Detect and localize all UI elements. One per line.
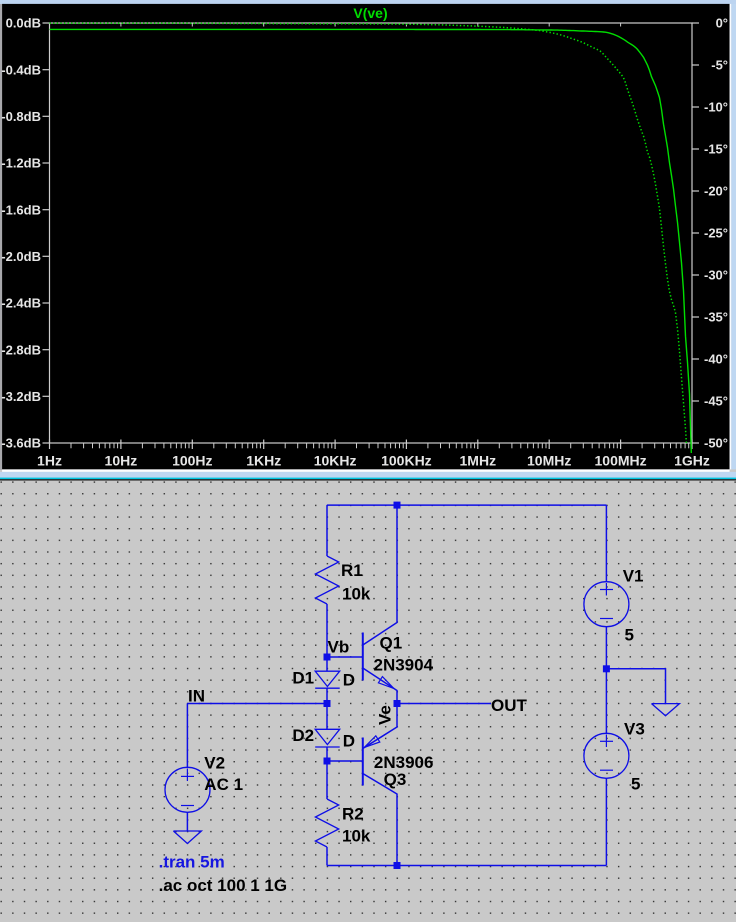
ground (V2) [173, 831, 201, 844]
wire bottom rail [327, 865, 606, 867]
svg-text:1MHz: 1MHz [460, 453, 497, 469]
svg-text:5: 5 [631, 774, 640, 793]
y-axis left dB labels [1, 16, 49, 451]
svg-text:.tran 5m: .tran 5m [159, 853, 225, 872]
svg-text:1KHz: 1KHz [246, 453, 281, 469]
svg-text:Q1: Q1 [380, 634, 403, 653]
resistor R1 [315, 556, 338, 604]
wire R1 top lead [326, 505, 328, 556]
svg-text:10Hz: 10Hz [105, 453, 138, 469]
wire mid node to ground [606, 669, 665, 704]
svg-text:5: 5 [625, 626, 634, 645]
svg-text:D: D [343, 732, 355, 751]
svg-text:10k: 10k [342, 584, 371, 603]
wire V1 to mid node [605, 627, 607, 669]
svg-text:1GHz: 1GHz [674, 453, 710, 469]
svg-text:V2: V2 [204, 754, 225, 773]
plot title V(ve) [353, 5, 387, 21]
node bottom rail junction [394, 862, 401, 869]
directive .tran 5m [159, 853, 225, 872]
svg-text:R1: R1 [341, 561, 363, 580]
svg-text:100Hz: 100Hz [172, 453, 212, 469]
x-axis frequency labels [37, 453, 710, 469]
y-axis right phase labels [692, 16, 728, 451]
svg-text:-45°: -45° [704, 394, 728, 409]
voltage source V3 [584, 733, 629, 778]
plot frame [50, 23, 693, 449]
node A top junction [394, 502, 401, 509]
node Vb junction [324, 654, 331, 661]
svg-text:Vb: Vb [328, 637, 350, 656]
svg-text:D2: D2 [292, 726, 314, 745]
svg-text:-0.4dB: -0.4dB [1, 62, 41, 77]
svg-text:-15°: -15° [704, 142, 728, 157]
wire V+ rail to V1 [605, 505, 607, 582]
svg-text:10k: 10k [342, 827, 371, 846]
trace V(ve) phase (dotted) [50, 23, 687, 443]
svg-text:-35°: -35° [704, 310, 728, 325]
node V1-V3 mid junction [603, 665, 610, 672]
svg-text:R2: R2 [342, 805, 364, 824]
transistor Q1 2N3904 [362, 633, 364, 681]
svg-text:-2.0dB: -2.0dB [1, 249, 41, 264]
wire V2 to ground [186, 812, 188, 831]
ground (right) [652, 704, 680, 716]
svg-text:Q3: Q3 [384, 770, 407, 789]
diode D2 [315, 729, 340, 747]
svg-text:-10°: -10° [704, 100, 728, 115]
wire top rail [327, 504, 606, 506]
svg-text:-3.2dB: -3.2dB [1, 389, 41, 404]
svg-text:-5°: -5° [711, 58, 728, 73]
svg-text:D1: D1 [292, 669, 314, 688]
transistor Q3 2N3906 [362, 738, 364, 786]
svg-text:.ac oct 100 1 1G: .ac oct 100 1 1G [159, 876, 288, 895]
svg-text:-20°: -20° [704, 184, 728, 199]
wire lower node to Q3 base [327, 760, 363, 762]
svg-text:-3.6dB: -3.6dB [1, 436, 41, 451]
diode D1 [315, 671, 340, 688]
svg-text:V1: V1 [623, 567, 644, 586]
svg-text:-30°: -30° [704, 268, 728, 283]
svg-text:100MHz: 100MHz [595, 453, 647, 469]
wire R2 top lead [326, 761, 328, 799]
svg-text:-2.8dB: -2.8dB [1, 342, 41, 357]
svg-text:10MHz: 10MHz [527, 453, 571, 469]
svg-text:10KHz: 10KHz [314, 453, 357, 469]
svg-text:-1.2dB: -1.2dB [1, 156, 41, 171]
svg-text:-40°: -40° [704, 352, 728, 367]
wire D1 top lead [326, 657, 328, 671]
wire V3 to bottom rail [605, 778, 607, 865]
svg-text:OUT: OUT [491, 696, 528, 715]
wire D2 to lower node [326, 747, 328, 761]
node Ve/OUT junction [394, 700, 401, 707]
voltage source V1 [584, 582, 629, 627]
wire D1 to IN node [326, 688, 328, 703]
wire R2 bottom lead [326, 847, 328, 866]
svg-text:D: D [343, 671, 355, 690]
resistor R2 [315, 799, 338, 847]
svg-text:V(ve): V(ve) [353, 5, 387, 21]
svg-text:1Hz: 1Hz [37, 453, 62, 469]
svg-text:-0.8dB: -0.8dB [1, 109, 41, 124]
trace V(ve) magnitude (solid) [50, 29, 692, 453]
wire R1 bottom lead [326, 604, 328, 657]
svg-text:-2.4dB: -2.4dB [1, 296, 41, 311]
svg-text:0.0dB: 0.0dB [6, 16, 41, 31]
wire mid node to V3 [605, 669, 607, 734]
node below D2 junction [324, 758, 331, 765]
svg-text:Ve: Ve [375, 705, 394, 725]
node IN junction [324, 700, 331, 707]
wire IN vertical to V2 [186, 704, 188, 768]
wire Vb to Q1 base [327, 656, 363, 658]
svg-text:V3: V3 [624, 720, 645, 739]
svg-text:AC 1: AC 1 [204, 775, 243, 794]
wire D2 top lead [326, 704, 328, 730]
svg-text:IN: IN [188, 687, 205, 706]
svg-text:-50°: -50° [704, 436, 728, 451]
svg-text:-25°: -25° [704, 226, 728, 241]
voltage source V2 [165, 767, 210, 812]
svg-text:100KHz: 100KHz [381, 453, 432, 469]
svg-text:2N3904: 2N3904 [374, 655, 434, 674]
wire OUT net [397, 703, 491, 705]
wire IN net [187, 703, 327, 705]
svg-text:0°: 0° [716, 16, 728, 31]
svg-text:-1.6dB: -1.6dB [1, 202, 41, 217]
